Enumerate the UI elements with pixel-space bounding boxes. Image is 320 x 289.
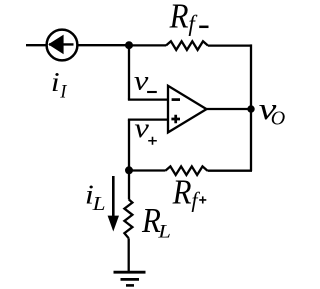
wire: op-amp output to node vO xyxy=(207,108,252,110)
wire: RL to ground xyxy=(128,238,130,272)
wire: current source to node A xyxy=(78,44,129,46)
wire: v+ from op-amp xyxy=(128,118,168,120)
op-amp minus input sign xyxy=(172,98,180,101)
wire: node A to resistor Rf- xyxy=(129,44,166,46)
wire: right vertical rail xyxy=(250,44,252,171)
ground xyxy=(114,271,146,274)
svg-text:O: O xyxy=(271,108,285,130)
wire: Rf+ to right rail xyxy=(208,170,253,172)
node A junction dot xyxy=(125,41,133,49)
current arrow i_L xyxy=(112,176,115,218)
svg-text:i: i xyxy=(51,67,60,97)
svg-text:v: v xyxy=(134,112,149,143)
op-amp plus input sign xyxy=(171,115,180,124)
wire: v- into op-amp xyxy=(128,98,168,100)
resistor Rf+ zigzag xyxy=(166,166,208,175)
node B junction dot xyxy=(125,166,133,174)
current source iI circle xyxy=(47,30,78,61)
resistor RL vertical zigzag xyxy=(124,199,132,238)
wire: v+ down to node B xyxy=(128,120,130,171)
svg-text:R: R xyxy=(169,0,189,35)
svg-text:R: R xyxy=(172,174,192,212)
wire: Rf- to right rail xyxy=(208,44,251,46)
wire: left input lead xyxy=(26,44,46,46)
op-amp U1 triangle xyxy=(168,86,207,133)
wire: node B down to RL xyxy=(128,170,130,199)
wire: node B to resistor Rf+ xyxy=(129,169,166,171)
svg-text:I: I xyxy=(59,83,67,103)
svg-text:L: L xyxy=(92,193,106,215)
node vO junction dot xyxy=(247,105,254,112)
wire: node A down to v- xyxy=(128,45,130,99)
svg-text:v: v xyxy=(134,65,149,96)
svg-text:L: L xyxy=(157,221,171,242)
resistor Rf- zigzag xyxy=(166,41,208,50)
current source arrow (points left) xyxy=(49,43,74,45)
